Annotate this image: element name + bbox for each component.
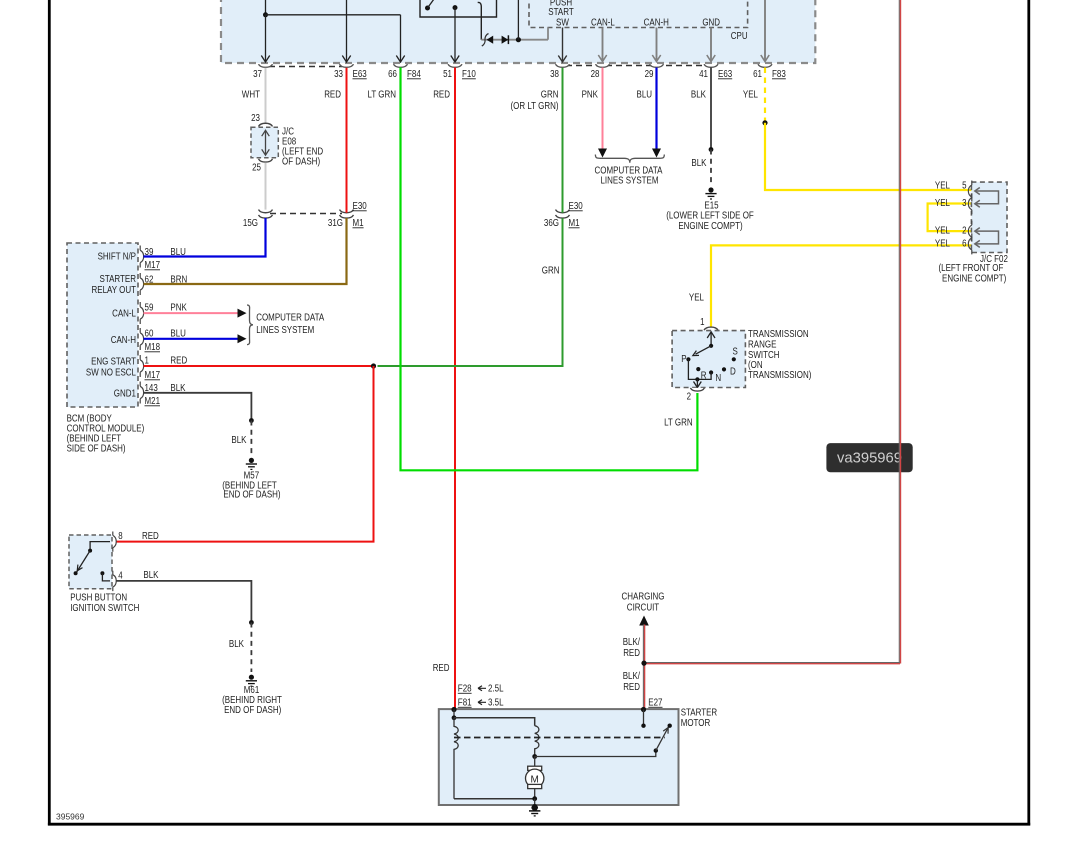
wire BLU pin29 with arrow [652, 68, 661, 158]
svg-text:RANGE: RANGE [748, 340, 777, 351]
node charging junction [641, 661, 646, 666]
node: diode junction [516, 37, 521, 42]
wire YEL J/C F02 pin6 left and down to TRS pin1 [711, 245, 971, 327]
GND label and arrow to pin 41 [702, 17, 720, 61]
wire BLU pin39 to 15G [144, 218, 266, 257]
J/C E08 connector cap [259, 123, 273, 126]
svg-text:66: 66 [388, 69, 397, 80]
wire RED pin51 long drop to starter [454, 68, 456, 710]
J/C F02 labels [935, 181, 1008, 285]
J/C E08 lower cup [259, 159, 273, 162]
wire: vertical into diode junction from top [517, 0, 519, 40]
wire to contact [535, 751, 656, 757]
wire RED junction down to ignition switch row [116, 366, 374, 542]
15G-31G connector caps/cups [259, 210, 354, 218]
starter bottom bus [454, 796, 537, 805]
relay inside module [420, 0, 497, 17]
svg-text:YEL: YEL [689, 293, 704, 304]
svg-text:61: 61 [753, 69, 762, 80]
svg-text:BLK: BLK [691, 158, 706, 169]
svg-text:PUSH BUTTON: PUSH BUTTON [70, 593, 127, 604]
wire GRN pin38 to 36G [562, 68, 564, 213]
diode D2 (right-pointing) [502, 35, 509, 44]
svg-text:4: 4 [118, 571, 123, 582]
TRS pin1 cap [704, 327, 718, 330]
J/C F02 internal loop pins 5-3 [975, 188, 999, 208]
svg-text:ENGINE COMPT): ENGINE COMPT) [942, 274, 1006, 285]
svg-text:MOTOR: MOTOR [681, 718, 711, 729]
svg-text:COMPUTER DATA: COMPUTER DATA [256, 313, 324, 324]
J/C F02 box [971, 182, 1007, 252]
hold-in coil (right) [535, 726, 539, 757]
connector labels E30/M1 [243, 201, 583, 229]
svg-text:M: M [531, 774, 539, 785]
F28/F81 engine labels [458, 684, 663, 709]
svg-text:395969: 395969 [56, 812, 85, 822]
svg-text:CAN-L: CAN-L [112, 309, 136, 320]
svg-text:LINES SYSTEM: LINES SYSTEM [600, 176, 658, 187]
J/C F02 internal loop pins 2-6 [975, 228, 999, 248]
svg-text:GND1: GND1 [114, 389, 137, 400]
node coil junction [532, 754, 537, 759]
svg-text:ENGINE COMPT): ENGINE COMPT) [678, 221, 742, 232]
J/C E08 labels [251, 113, 323, 174]
wire BLK/RED right side vertical [899, 0, 900, 664]
svg-text:(LEFT FRONT OF: (LEFT FRONT OF [939, 263, 1004, 274]
svg-text:59: 59 [145, 303, 154, 314]
starter contact switch [641, 710, 672, 753]
svg-text:RELAY OUT: RELAY OUT [92, 285, 137, 296]
label STARTER MOTOR [681, 708, 718, 730]
page frame bottom border [48, 823, 1030, 826]
svg-text:2: 2 [962, 226, 967, 237]
wire WHT pin37 upper [265, 68, 267, 123]
push button labels [70, 531, 159, 614]
connector dashed link pin37-pin33 (E63) [269, 66, 342, 68]
wire: pin 37 drop with arrow [261, 15, 269, 62]
svg-text:RED: RED [623, 648, 640, 659]
wire BLU pin60 with arrow [144, 334, 247, 343]
svg-text:YEL: YEL [935, 239, 950, 250]
BCM box [67, 243, 138, 407]
svg-text:CPU: CPU [731, 31, 748, 42]
pull-in coil (left) [454, 718, 458, 799]
wire BRN pin62 to 31G [144, 218, 347, 284]
wire LT GRN pin66 down, right, up to TRS pin2 [401, 68, 698, 471]
svg-text:STARTER: STARTER [100, 274, 137, 285]
transmission range switch box [672, 331, 745, 388]
connector dashed link 15G-31G [270, 213, 342, 215]
svg-text:RED: RED [433, 90, 450, 101]
wire YEL solid down and right to J/C F02 pin5 [765, 123, 971, 190]
connector dashed link pin38-pin41 [566, 65, 707, 67]
wire: pin 33 drop with arrow [342, 0, 350, 62]
svg-text:29: 29 [645, 69, 654, 80]
svg-text:CAN-L: CAN-L [591, 17, 615, 28]
svg-text:1: 1 [145, 356, 150, 367]
node on BLK [709, 147, 714, 152]
diode line (gray) [481, 39, 548, 41]
starter internal top bus [452, 710, 535, 726]
brace computer data lines (top) [595, 155, 664, 163]
svg-text:CAN-H: CAN-H [644, 17, 669, 28]
svg-text:5: 5 [962, 181, 967, 192]
node YEL splice [762, 120, 767, 125]
svg-text:SHIFT N/P: SHIFT N/P [98, 252, 137, 263]
push button ignition switch box [69, 532, 116, 592]
ground below starter motor [529, 804, 540, 816]
svg-text:OF DASH): OF DASH) [282, 157, 320, 168]
svg-text:CIRCUIT: CIRCUIT [627, 603, 659, 614]
svg-text:YEL: YEL [935, 181, 950, 192]
ground E15 [666, 187, 754, 232]
TRS side label [748, 329, 811, 381]
svg-text:15G: 15G [243, 218, 258, 229]
wire BLK pin41 solid [710, 68, 712, 150]
node: red junction [371, 363, 376, 368]
svg-text:31G: 31G [328, 218, 343, 229]
label computer data lines system (BCM) [256, 313, 324, 336]
svg-text:BLK/: BLK/ [623, 637, 640, 648]
CAN-L label and arrow to pin 28 [591, 17, 615, 61]
BCM pin connector arcs [140, 246, 143, 404]
svg-text:END OF DASH): END OF DASH) [223, 490, 280, 501]
svg-text:LT GRN: LT GRN [664, 418, 693, 429]
svg-text:33: 33 [334, 69, 343, 80]
svg-text:D: D [730, 367, 736, 378]
svg-text:38: 38 [550, 69, 559, 80]
page frame left border [48, 0, 51, 825]
svg-text:2.5L: 2.5L [488, 684, 504, 695]
svg-text:F84: F84 [407, 69, 421, 80]
CAN-H label and arrow to pin 29 [644, 17, 669, 61]
svg-text:GRN: GRN [541, 90, 559, 101]
svg-text:YEL: YEL [935, 198, 950, 209]
F28 arrow [478, 686, 486, 691]
svg-text:41: 41 [699, 69, 708, 80]
label computer data lines system (top) [595, 166, 663, 187]
svg-text:F10: F10 [462, 69, 476, 80]
svg-text:2: 2 [687, 392, 692, 403]
svg-text:R: R [701, 371, 707, 382]
ECM/IPDM top module box (cut off at top) [221, 0, 815, 63]
wire RED pin1 to junction [144, 365, 374, 367]
svg-text:PNK: PNK [170, 303, 187, 314]
plunger linkage dashed [454, 737, 665, 739]
BCM pin labels [145, 247, 188, 407]
BLK/RED labels [623, 637, 640, 693]
wire BLK/RED horizontal to charging junction [644, 663, 900, 664]
svg-text:TRANSMISSION): TRANSMISSION) [748, 370, 811, 381]
svg-text:8: 8 [118, 531, 123, 542]
svg-text:LINES SYSTEM: LINES SYSTEM [256, 325, 314, 336]
svg-text:YEL: YEL [935, 226, 950, 237]
wire PNK pin28 with arrow [598, 68, 607, 158]
starter motor M symbol [526, 757, 544, 799]
svg-text:BLK/: BLK/ [623, 671, 640, 682]
svg-text:WHT: WHT [242, 90, 260, 101]
svg-text:BLK: BLK [691, 90, 706, 101]
svg-text:SIDE OF DASH): SIDE OF DASH) [67, 444, 126, 455]
svg-text:END OF DASH): END OF DASH) [224, 705, 281, 716]
J/C E08 junction box [251, 127, 278, 158]
svg-text:RED: RED [433, 663, 450, 674]
svg-text:GRN: GRN [542, 266, 560, 277]
svg-text:25: 25 [252, 163, 261, 174]
svg-text:P: P [681, 354, 687, 365]
svg-text:LT GRN: LT GRN [368, 90, 397, 101]
svg-text:va395969: va395969 [837, 450, 902, 467]
svg-text:TRANSMISSION: TRANSMISSION [748, 329, 809, 340]
TRS pin2 cup [690, 388, 704, 391]
svg-text:E63: E63 [353, 69, 368, 80]
svg-text:51: 51 [443, 69, 452, 80]
pin row connector cups on module edge [259, 64, 773, 67]
wire BLK/RED charging to E27 [643, 625, 644, 710]
svg-text:CHARGING: CHARGING [622, 592, 665, 603]
ground M61 [222, 675, 282, 716]
brace computer data lines (BCM) [247, 305, 253, 345]
relay coil hook lead [478, 2, 482, 39]
svg-text:CAN-H: CAN-H [111, 335, 136, 346]
wire YEL pin61 dashed [764, 68, 766, 123]
svg-text:STARTER: STARTER [681, 708, 718, 719]
svg-text:BLK: BLK [229, 639, 244, 650]
BCM footer label [67, 414, 145, 455]
charging circuit arrow [622, 592, 665, 626]
svg-text:RED: RED [623, 682, 640, 693]
svg-text:RED: RED [142, 531, 159, 542]
node F28/F81 entry [451, 707, 456, 712]
svg-text:BLU: BLU [637, 90, 653, 101]
wire: PUSH START SW arrow to pin 38 [558, 28, 566, 63]
svg-text:PNK: PNK [582, 90, 599, 101]
wire WHT pin37 lower [265, 163, 267, 213]
wire RED pin33 to 31G [346, 68, 348, 213]
diode D1 (left-pointing, curved bar) [482, 34, 493, 47]
wire GRN below 36G down and left to junction [378, 218, 563, 366]
36G connector cap/cup [556, 210, 570, 218]
svg-text:YEL: YEL [743, 90, 758, 101]
svg-text:GND: GND [702, 17, 720, 28]
svg-text:F83: F83 [772, 69, 786, 80]
svg-text:N: N [715, 373, 721, 384]
node E27 entry [641, 707, 646, 712]
svg-text:SW: SW [556, 17, 569, 28]
svg-text:23: 23 [251, 113, 260, 124]
ground M57 [222, 458, 280, 501]
wire: diode output up to CPU box [547, 28, 549, 40]
svg-text:ENG START: ENG START [91, 357, 136, 368]
svg-text:(OR LT GRN): (OR LT GRN) [511, 101, 559, 112]
wire YEL jumper pin3 to pin2 [928, 204, 972, 232]
wire PNK pin59 with arrow [144, 309, 247, 318]
wire BLK pin4 to M61 [116, 581, 251, 623]
wire: module internal bus horizontal [263, 0, 401, 17]
F81 arrow [478, 700, 486, 705]
starter motor box [439, 709, 679, 805]
va395969 watermark box [826, 443, 912, 472]
svg-text:RED: RED [170, 356, 187, 367]
svg-text:3.5L: 3.5L [488, 698, 504, 709]
svg-text:6: 6 [962, 239, 967, 250]
J/C F02 pin arcs [968, 181, 971, 255]
wire: pin 66 drop with arrow [396, 15, 404, 62]
page frame right border [1027, 0, 1030, 825]
svg-text:1: 1 [700, 317, 705, 328]
svg-text:37: 37 [253, 69, 262, 80]
wire: gray drop to pin 61 [761, 0, 769, 62]
svg-text:BLK: BLK [231, 435, 246, 446]
svg-text:28: 28 [591, 69, 600, 80]
wire BLK pin143 to M57 [144, 393, 252, 421]
svg-text:E63: E63 [718, 69, 733, 80]
svg-text:IGNITION SWITCH: IGNITION SWITCH [70, 603, 139, 614]
svg-text:36G: 36G [544, 218, 559, 229]
wire BLK dashed to E15 ground [710, 150, 712, 187]
wire: pin 51 drop with arrow [451, 8, 459, 62]
svg-text:(LOWER LEFT SIDE OF: (LOWER LEFT SIDE OF [666, 211, 754, 222]
svg-text:RED: RED [324, 90, 341, 101]
wire color labels row [242, 90, 759, 113]
svg-text:3: 3 [962, 198, 967, 209]
svg-text:SW NO ESCL: SW NO ESCL [86, 368, 136, 379]
svg-text:BLK: BLK [143, 570, 158, 581]
svg-text:S: S [733, 347, 739, 358]
CPU inner dashed box [529, 0, 748, 42]
pin number labels row [253, 69, 786, 80]
